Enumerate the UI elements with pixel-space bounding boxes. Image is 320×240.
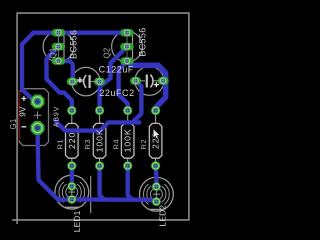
capacitor C2 pad - — [67, 78, 78, 86]
svg-text:AB9V: AB9V — [54, 106, 61, 128]
LED2 anode pad — [152, 182, 161, 191]
wire C2.right to R3.top — [97, 82, 101, 111]
C1 plus symbol — [154, 82, 159, 87]
svg-text:R3: R3 — [83, 139, 92, 149]
battery G1 outline — [19, 89, 48, 146]
board frame — [12, 13, 189, 224]
capacitor C1 outline — [135, 66, 164, 95]
transistor Q2 pad 3 — [120, 57, 134, 65]
LED1 flat-side line — [90, 176, 92, 213]
svg-text:LED1: LED1 — [72, 210, 82, 232]
G1 minus symbol — [22, 126, 27, 128]
G1 origin cross — [34, 111, 42, 119]
transistor Q2 pad 1 — [120, 29, 134, 37]
svg-text:R1: R1 — [55, 139, 64, 149]
resistor R3 bottom pad — [95, 161, 104, 170]
Q1 pin line — [58, 33, 60, 61]
resistor R4 bottom pad — [123, 161, 132, 170]
wire R3.bot to bottom rail — [100, 166, 105, 200]
resistor R1 220 body — [66, 111, 79, 166]
wire mid rail (dead-end stub) — [56, 122, 139, 131]
capacitor C1 pad - — [158, 77, 169, 85]
resistor R3 top pad — [95, 106, 104, 115]
svg-text:BC556: BC556 — [68, 30, 78, 59]
wire G1.minus to LED1.bot — [38, 128, 72, 200]
transistor Q1 pad 3 — [52, 57, 66, 65]
LED1 outline — [55, 175, 89, 209]
resistor R4 top pad — [123, 106, 132, 115]
wire R4.bot to bottom rail — [128, 166, 133, 200]
svg-text:22uFC2: 22uFC2 — [99, 88, 134, 98]
svg-text:100K: 100K — [123, 128, 133, 152]
wire bottom rail LED1.bot to LED2.bot — [72, 199, 157, 201]
G1 plus symbol — [22, 96, 27, 101]
transistor Q1 pad 1 — [52, 29, 66, 37]
svg-text:100K: 100K — [95, 128, 105, 152]
C1 polarity symbol — [140, 75, 160, 88]
resistor R2 top pad — [151, 106, 160, 115]
svg-text:Q1: Q1 — [49, 47, 58, 58]
wire V+ left: top rail to G1 pad + — [22, 33, 38, 102]
Q2 pin line — [126, 33, 128, 61]
resistor R2 bottom pad — [151, 161, 160, 170]
transistor Q1 pad 2 — [52, 43, 66, 51]
battery G1 left edge (dark red) — [18, 90, 20, 141]
resistor R3 100K body — [93, 111, 106, 166]
wire C1.left to mid rail — [132, 81, 141, 123]
LED1 origin cross — [68, 189, 75, 196]
resistor R2 220 body — [149, 111, 162, 166]
transistor Q2 pad 2 — [120, 43, 134, 51]
svg-text:Q2: Q2 — [103, 47, 112, 58]
svg-text:G1: G1 — [9, 118, 18, 129]
wire R1.bot to LED1.top — [70, 166, 74, 187]
LED1 cathode pad — [67, 195, 76, 204]
wire Q2.3 to R4.top — [119, 61, 128, 111]
LED2 cathode pad — [152, 197, 161, 206]
C2 polarity symbol — [77, 75, 97, 88]
svg-text:BC556: BC556 — [138, 27, 148, 56]
resistor R1 top pad — [67, 106, 76, 115]
svg-text:9V: 9V — [18, 106, 27, 117]
capacitor C1 pad + — [130, 77, 141, 85]
wire Q1.2 to R1.top — [47, 47, 72, 111]
mouse cursor — [153, 129, 160, 139]
wire Q2.3 via C1.right to R2.top — [127, 61, 166, 111]
resistor R4 100K body — [121, 111, 134, 166]
capacitor C2 pad + — [94, 78, 105, 86]
battery G1 pad + — [31, 95, 45, 109]
svg-text:R2: R2 — [139, 139, 148, 149]
wire Q1.3 to C2.left — [59, 61, 73, 82]
transistor Q2 outline — [112, 31, 143, 62]
LED2 outline — [140, 177, 174, 211]
svg-text:R4: R4 — [111, 139, 120, 149]
wire R2.bot to LED2.top — [153, 166, 158, 187]
wire Q2.2 to C2.right — [100, 47, 128, 86]
resistor R1 bottom pad — [67, 161, 76, 170]
wire top rail Q1.1-Q2.1 — [34, 31, 128, 35]
capacitor C2 outline — [72, 67, 100, 95]
svg-text:LED2: LED2 — [157, 205, 167, 227]
battery G1 pad - — [31, 121, 45, 135]
LED2 origin cross — [153, 191, 160, 198]
svg-text:220: 220 — [67, 132, 77, 149]
transistor Q1 outline — [43, 31, 74, 62]
LED1 anode pad — [67, 182, 76, 191]
svg-text:C122uF: C122uF — [99, 65, 134, 75]
C2 plus symbol — [77, 77, 82, 82]
